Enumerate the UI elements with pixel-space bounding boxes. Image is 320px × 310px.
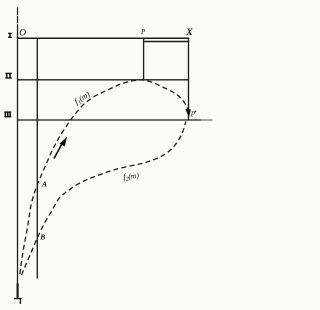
svg-text:P: P xyxy=(140,28,146,36)
label III (roman numeral, drawn) xyxy=(4,111,11,117)
double segment under top line between P and X xyxy=(145,41,189,43)
arrow on f1 near A xyxy=(54,137,67,158)
dashed curve f1 xyxy=(20,80,189,274)
vertical line under X xyxy=(188,38,190,120)
label I (roman numeral, drawn) xyxy=(8,33,12,38)
y-axis thick lower part xyxy=(17,284,19,297)
horizontal line II xyxy=(18,79,189,81)
svg-text:A: A xyxy=(41,179,47,188)
svg-text:B: B xyxy=(39,232,45,241)
y-axis upper broken part xyxy=(17,8,19,30)
horizontal line I (top) xyxy=(18,37,189,39)
vertical line under P xyxy=(143,38,145,80)
horizontal line III faint right end xyxy=(201,119,212,121)
horizontal line III xyxy=(18,119,202,121)
y-axis xyxy=(17,30,19,297)
label II (roman numeral, drawn) xyxy=(5,73,11,79)
vertical line at x=37 from top line down xyxy=(36,38,38,278)
arrowhead of f1 pointing down into P' xyxy=(186,109,191,117)
axis foot tick xyxy=(19,299,21,304)
svg-text:X: X xyxy=(185,28,193,38)
axis foot bar xyxy=(15,298,21,300)
dashed curve f2 xyxy=(22,122,186,276)
svg-text:O: O xyxy=(19,29,26,39)
